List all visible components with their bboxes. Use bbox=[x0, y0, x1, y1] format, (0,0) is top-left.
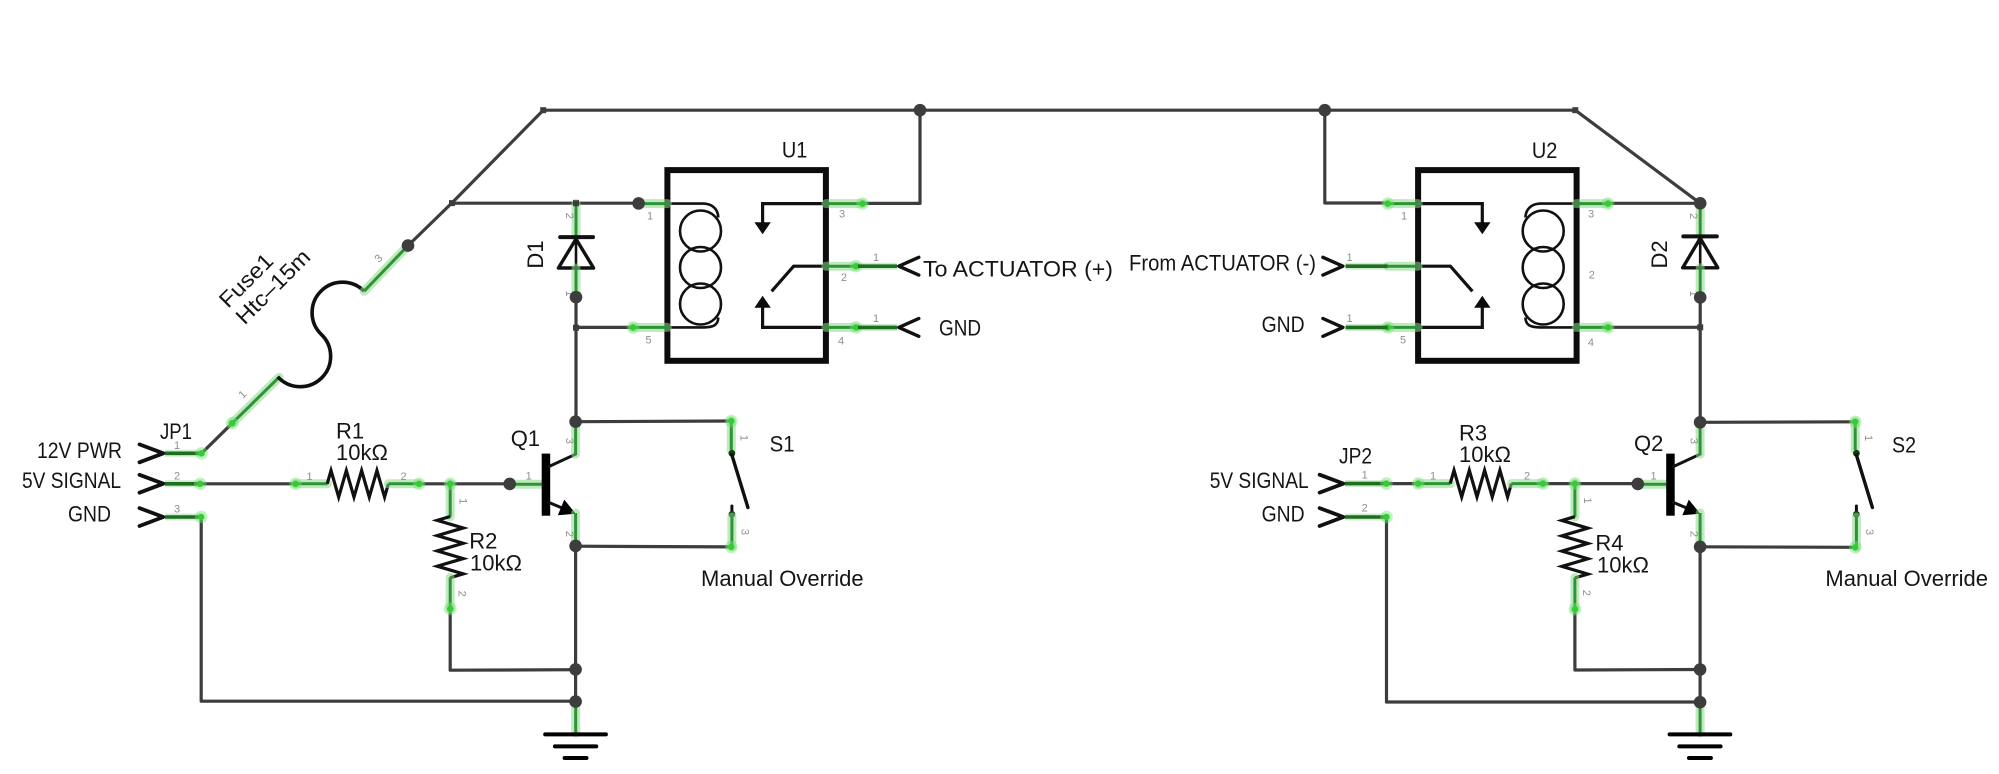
svg-text:1: 1 bbox=[174, 440, 180, 452]
wire D1 cathode node: U1 pin5 tee bbox=[576, 326, 633, 329]
net arrow GND (U1 pin4) bbox=[858, 324, 897, 331]
transistor Q1 emitter line and arrow bbox=[549, 503, 564, 509]
junction R2 / emitter rail node bbox=[569, 663, 582, 676]
wire bend at D2 pin4 tee bbox=[1697, 324, 1703, 330]
wire bend at U1 pin5 tee bbox=[573, 325, 579, 331]
svg-text:1: 1 bbox=[647, 211, 653, 223]
svg-text:2: 2 bbox=[1687, 213, 1699, 219]
fuse Fuse1 label bbox=[214, 228, 315, 329]
svg-text:JP2: JP2 bbox=[1339, 444, 1372, 469]
junction Q1 collector / S1 node bbox=[569, 415, 582, 428]
svg-text:2: 2 bbox=[1580, 590, 1592, 596]
svg-text:Q2: Q2 bbox=[1634, 431, 1663, 456]
junction bus / U2 pin1 node bbox=[1319, 104, 1332, 117]
svg-text:5V SIGNAL: 5V SIGNAL bbox=[22, 468, 121, 493]
svg-text:D2: D2 bbox=[1647, 240, 1672, 268]
junction Q1 emitter / S1 node bbox=[569, 540, 582, 553]
relay U1 body box bbox=[667, 170, 826, 361]
svg-text:S2: S2 bbox=[1892, 433, 1916, 458]
net arrow To ACTUATOR (+) bbox=[858, 263, 897, 270]
junction D1 anode node bbox=[570, 291, 583, 304]
junction GND rail node left bbox=[569, 695, 582, 708]
connector JP2 pin 1 arrow (5V SIGNAL) bbox=[1320, 475, 1344, 493]
resistor R3 lead 2 bbox=[1511, 479, 1543, 488]
wire fuse node to U1 pin1 bbox=[452, 202, 640, 205]
relay U1 switch blade (pin2) bbox=[772, 266, 826, 291]
switch S2 pin3 lead bbox=[1852, 517, 1861, 547]
svg-text:2: 2 bbox=[1362, 503, 1368, 515]
svg-text:2: 2 bbox=[174, 471, 180, 483]
svg-text:1: 1 bbox=[526, 471, 532, 483]
svg-text:1: 1 bbox=[1401, 211, 1407, 223]
svg-text:3: 3 bbox=[739, 529, 751, 535]
svg-text:1: 1 bbox=[306, 471, 312, 483]
svg-text:1: 1 bbox=[1347, 252, 1353, 264]
wire JP2 GND pin2 to ground node bbox=[1387, 517, 1701, 702]
svg-text:3: 3 bbox=[372, 252, 385, 265]
wire D2 anode to Q2 collector bbox=[1699, 297, 1702, 422]
svg-text:3: 3 bbox=[563, 438, 575, 444]
svg-text:1: 1 bbox=[236, 388, 249, 401]
svg-text:1: 1 bbox=[873, 252, 879, 264]
svg-text:10kΩ: 10kΩ bbox=[1597, 552, 1649, 577]
transistor Q1 body bar bbox=[542, 454, 551, 516]
diode D1 anode lead (pin1) bbox=[572, 268, 581, 294]
transistor Q2 collector line bbox=[1674, 454, 1701, 466]
resistor R4 lead 2 bbox=[1570, 578, 1579, 610]
connector JP2 pin 2 arrow (GND) bbox=[1320, 508, 1344, 526]
transistor Q1 collector line bbox=[549, 454, 576, 466]
junction Q2 emitter / S2 node bbox=[1694, 541, 1707, 554]
resistor R4 body bbox=[1562, 517, 1588, 578]
switch S1 pin1 lead bbox=[727, 421, 736, 450]
relay U1 coil bbox=[667, 204, 721, 328]
svg-text:U2: U2 bbox=[1532, 138, 1558, 163]
relay U1 switch contact arrow upper bbox=[763, 204, 826, 224]
svg-text:10kΩ: 10kΩ bbox=[336, 440, 388, 465]
wire JP2 pin1 to R3 pin1 bbox=[1387, 482, 1419, 485]
wire U1 pin3 to bus bbox=[863, 110, 921, 203]
wire U2 pin4 to D2 anode rail bbox=[1608, 326, 1700, 329]
net arrow From ACTUATOR (-) bbox=[1346, 263, 1388, 270]
wire S2 pin3 to Q2 emitter node bbox=[1700, 545, 1855, 549]
svg-text:S1: S1 bbox=[770, 432, 795, 457]
relay U1 pin 5 stub bbox=[633, 323, 667, 332]
svg-text:From ACTUATOR (-): From ACTUATOR (-) bbox=[1129, 251, 1316, 276]
svg-text:3: 3 bbox=[839, 209, 845, 221]
wire D1 anode to Q1 collector bbox=[574, 297, 577, 422]
svg-text:5V SIGNAL: 5V SIGNAL bbox=[1210, 468, 1309, 493]
relay U2 coil bbox=[1523, 204, 1577, 328]
diode D2 cathode bar bbox=[1683, 234, 1717, 238]
transistor Q2 body bar bbox=[1666, 454, 1675, 516]
junction Q1 base node bbox=[503, 478, 516, 491]
switch S1 bottom contact bbox=[730, 506, 733, 511]
svg-text:2: 2 bbox=[1524, 471, 1530, 483]
switch S1 top contact bbox=[729, 450, 736, 457]
relay U2 pin 2 stub bbox=[1388, 262, 1418, 271]
svg-text:Q1: Q1 bbox=[511, 426, 540, 451]
junction D2 anode node bbox=[1694, 291, 1707, 304]
net arrow GND (U2 pin5) bbox=[1346, 324, 1388, 331]
svg-text:1: 1 bbox=[1651, 471, 1657, 483]
resistor R2 lead 1 bbox=[446, 484, 455, 517]
resistor R1 lead 1 bbox=[296, 479, 328, 488]
transistor Q2 base lead bbox=[1640, 480, 1666, 489]
switch S1 pin3 lead bbox=[727, 517, 736, 547]
fuse Fuse1 lead pin1 bbox=[232, 377, 279, 423]
relay U1 switch contact arrow lower bbox=[763, 306, 826, 327]
svg-text:4: 4 bbox=[838, 336, 844, 348]
resistor R2 lead 2 bbox=[446, 577, 455, 608]
connector JP1 pin 3 arrow (GND) bbox=[140, 508, 164, 526]
svg-text:2: 2 bbox=[1589, 270, 1595, 282]
junction fuse-bus node bbox=[402, 239, 415, 252]
relay U1 pin 2 stub bbox=[826, 262, 856, 271]
transistor Q1 base lead bbox=[512, 480, 542, 489]
transistor Q2 emitter lead bbox=[1696, 513, 1705, 544]
ground symbol left bbox=[571, 707, 580, 733]
svg-text:Manual Override: Manual Override bbox=[701, 566, 864, 591]
svg-text:GND: GND bbox=[68, 502, 111, 527]
wire JP1 GND pin3 to ground node bbox=[201, 517, 575, 701]
svg-text:5: 5 bbox=[645, 335, 651, 347]
svg-text:Manual Override: Manual Override bbox=[1825, 566, 1988, 591]
relay U2 switch contact arrow lower bbox=[1418, 306, 1482, 327]
fuse Fuse1 lead pin3 bbox=[364, 246, 408, 292]
svg-text:2: 2 bbox=[1687, 531, 1699, 537]
wire bend at bus right corner bbox=[1572, 107, 1578, 113]
diode D2 cathode lead (pin2) bbox=[1696, 203, 1705, 236]
wire Q1 emitter node to ground node bbox=[574, 546, 577, 701]
switch S2 blade bbox=[1856, 455, 1872, 508]
wire Q1 collector node to S1 pin1 bbox=[576, 419, 732, 423]
svg-text:2: 2 bbox=[563, 531, 575, 537]
svg-text:5: 5 bbox=[1400, 335, 1406, 347]
junction bus/U1 pin3 node bbox=[914, 104, 927, 117]
svg-text:1: 1 bbox=[738, 435, 750, 441]
connector JP1 pin 2 arrow (5V SIGNAL) bbox=[140, 475, 164, 493]
wire R1 pin2 to Q1 base node bbox=[419, 482, 510, 485]
wire bend at bus corner bbox=[540, 107, 546, 113]
wire bend at fuse branch tee bbox=[449, 200, 455, 206]
svg-text:To ACTUATOR (+): To ACTUATOR (+) bbox=[923, 256, 1113, 281]
junction GND rail node right bbox=[1694, 696, 1707, 709]
svg-text:3: 3 bbox=[1687, 438, 1699, 444]
wire Q2 emitter node to ground node bbox=[1698, 547, 1701, 702]
relay U2 pin 4 stub bbox=[1576, 323, 1608, 332]
svg-text:GND: GND bbox=[1262, 502, 1305, 527]
svg-text:GND: GND bbox=[1262, 312, 1305, 337]
svg-text:2: 2 bbox=[841, 272, 847, 284]
svg-text:1: 1 bbox=[1581, 497, 1593, 503]
transistor Q2 emitter line and arrow bbox=[1674, 503, 1689, 509]
diode D1 cathode bar bbox=[560, 235, 593, 239]
switch S1 blade bbox=[732, 455, 748, 508]
switch S2 bottom contact bbox=[1855, 506, 1858, 511]
junction Q2 collector / S2 node bbox=[1694, 416, 1707, 429]
resistor R1 lead 2 bbox=[388, 479, 419, 488]
svg-text:GND: GND bbox=[939, 316, 981, 341]
junction R4 / emitter rail node bbox=[1694, 663, 1707, 676]
svg-text:1: 1 bbox=[873, 313, 879, 325]
relay U2 pin 5 stub bbox=[1388, 323, 1418, 332]
svg-text:2: 2 bbox=[400, 471, 406, 483]
diode D1 cathode lead (pin2) bbox=[572, 203, 581, 237]
svg-text:D1: D1 bbox=[523, 240, 548, 268]
svg-text:4: 4 bbox=[1588, 337, 1594, 349]
svg-text:10kΩ: 10kΩ bbox=[1459, 442, 1511, 467]
resistor R3 body bbox=[1450, 470, 1511, 497]
wire U2 pin3 to D2 cathode node bbox=[1608, 202, 1694, 205]
wire JP1 pin2 to R1 pin1 bbox=[202, 482, 296, 485]
connector JP1 pin 1 arrow (12V PWR) bbox=[140, 444, 164, 462]
wire bend at D1 top tee bbox=[573, 200, 579, 206]
resistor R4 lead 1 bbox=[1570, 484, 1579, 517]
svg-text:2: 2 bbox=[563, 213, 575, 219]
svg-text:3: 3 bbox=[1588, 209, 1594, 221]
relay U2 switch contact arrow upper bbox=[1418, 204, 1482, 224]
relay U1 pin 3 stub bbox=[826, 199, 863, 208]
transistor Q2 collector lead bbox=[1696, 423, 1705, 455]
wire bus to U2 pin1 bbox=[1325, 110, 1388, 203]
svg-text:1: 1 bbox=[1362, 470, 1368, 482]
junction U1 pin1 node bbox=[632, 197, 645, 210]
wire 12V bus: fuse to U2/D2 top rail bbox=[408, 110, 1700, 245]
svg-text:10kΩ: 10kΩ bbox=[470, 551, 522, 576]
svg-text:1: 1 bbox=[1862, 435, 1874, 441]
svg-text:2: 2 bbox=[456, 591, 468, 597]
wire Q2 collector node to S2 pin1 bbox=[1700, 420, 1855, 424]
relay U2 switch blade (pin2) bbox=[1418, 266, 1472, 291]
resistor R3 lead 1 bbox=[1418, 479, 1450, 488]
transistor Q1 collector lead bbox=[571, 422, 580, 454]
switch S2 pin1 lead bbox=[1851, 422, 1860, 450]
junction D2 cathode / bus node bbox=[1694, 197, 1707, 210]
switch S2 top contact bbox=[1853, 450, 1860, 457]
wire R2 pin2 to emitter ground rail bbox=[450, 609, 575, 670]
svg-text:U1: U1 bbox=[782, 137, 808, 162]
resistor R1 body bbox=[327, 471, 388, 498]
fuse Fuse1 body (S curve) bbox=[278, 282, 364, 387]
relay U2 pin 3 stub bbox=[1576, 199, 1608, 208]
svg-text:1: 1 bbox=[457, 498, 469, 504]
svg-text:1: 1 bbox=[1347, 313, 1353, 325]
wire R4 pin2 to emitter ground rail bbox=[1575, 609, 1700, 670]
relay U2 body box bbox=[1418, 170, 1577, 361]
resistor R2 body bbox=[437, 517, 463, 578]
junction Q2 base node bbox=[1632, 478, 1645, 491]
relay U1 pin 1 stub bbox=[641, 199, 667, 208]
diode D2 anode lead (pin1) bbox=[1696, 268, 1705, 294]
ground symbol right bbox=[1696, 708, 1705, 733]
wire R3 pin2 to Q2 base node bbox=[1543, 482, 1638, 485]
svg-text:1: 1 bbox=[1430, 471, 1436, 483]
transistor Q1 emitter lead bbox=[571, 513, 580, 544]
svg-text:3: 3 bbox=[1863, 529, 1875, 535]
wire S1 pin3 to Q1 emitter node bbox=[576, 545, 732, 549]
diode D2 triangle bbox=[1683, 238, 1718, 267]
relay U2 pin 1 stub bbox=[1388, 199, 1418, 208]
diode D1 triangle bbox=[558, 239, 593, 268]
svg-text:3: 3 bbox=[174, 504, 180, 516]
wire JP1 pin1 to fuse bbox=[202, 423, 233, 453]
svg-text:12V PWR: 12V PWR bbox=[37, 438, 122, 463]
relay U1 pin 4 stub bbox=[826, 323, 856, 332]
